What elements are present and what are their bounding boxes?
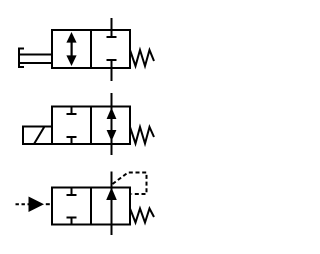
valve V1 body (2-position box) [52, 30, 130, 68]
valve V3 external pilot dashed line (top right loop) [113, 173, 147, 195]
valve V1 push-button stem top line [19, 54, 52, 56]
valve V3 pilot pressure triangle [29, 197, 45, 213]
valve V3 position divider [90, 188, 92, 225]
valve V3 top blocked-port T (left square) [71, 188, 73, 196]
valve V1 bottom blocked-port T-bar [107, 59, 117, 61]
valve V2 bottom blocked-port T (left square) [71, 137, 73, 144]
valve V3 body (2-position box) [52, 188, 130, 225]
valve V1 bottom port line [111, 60, 113, 82]
valve V1 flow arrow (double-headed, left square) [66, 32, 76, 66]
valve V1 push-button stem bottom line [19, 62, 52, 64]
valve V1 return spring [130, 50, 154, 66]
valve V1 top blocked-port T-bar [107, 36, 117, 38]
valve V1 top port line [111, 18, 113, 38]
valve V3 return spring [130, 209, 154, 223]
valve V2 solenoid diagonal [34, 127, 45, 145]
valve V3 flow arrow head (single, up) [106, 188, 117, 201]
valve V2 position divider [90, 107, 92, 145]
valve V1 position divider [90, 30, 92, 68]
valve V2 top blocked-port T (left square) [71, 107, 73, 114]
valve V3 bottom blocked-port T (left square) [71, 218, 73, 225]
valve V1 push-button actuator bracket [19, 49, 24, 68]
valve V3 pilot dashed supply line (left) [16, 203, 29, 205]
valve V2 solenoid actuator box [23, 127, 52, 145]
valve V2 return spring [130, 127, 154, 144]
valve V3 pilot dash to body [46, 203, 50, 205]
valve V2 through port line (right square) [111, 93, 113, 155]
valve V2 flow arrow heads (double-headed on port line) [107, 108, 117, 142]
valve V3 through port line (right square) [111, 172, 113, 236]
valve V2 body (2-position box) [52, 107, 130, 145]
